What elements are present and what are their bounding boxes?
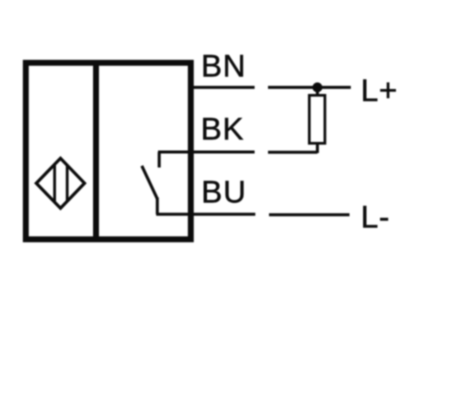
diamond inner vertical line (left): [53, 156, 56, 210]
wire BU segment 2 (to L-): [269, 213, 350, 216]
wire BU inside body + segment 1: [156, 213, 255, 216]
diamond inner vertical line (right): [66, 156, 69, 210]
svg-text:BK: BK: [201, 110, 245, 146]
switch contact: upper terminal stub: [158, 152, 161, 168]
load resistor body: [309, 95, 325, 143]
wire BK segment 2 (to load): [268, 151, 317, 154]
svg-text:BN: BN: [201, 47, 246, 83]
junction dot on BN wire: [312, 82, 322, 92]
svg-text:L+: L+: [361, 72, 398, 108]
load resistor: top lead: [316, 87, 319, 95]
load resistor: bottom lead: [316, 143, 319, 153]
wire BN segment 2 (to L+): [268, 86, 351, 89]
switch contact: blade: [142, 166, 158, 199]
sensor body divider: [93, 60, 99, 242]
svg-text:BU: BU: [201, 173, 246, 209]
svg-text:L-: L-: [361, 198, 390, 234]
proximity sensor symbol: diamond: [36, 158, 84, 208]
sensor body outline: [26, 63, 191, 240]
switch contact: lower terminal stub: [156, 198, 159, 215]
wire BK inside body + segment 1: [158, 151, 255, 154]
wire BN segment 1: [189, 86, 255, 89]
